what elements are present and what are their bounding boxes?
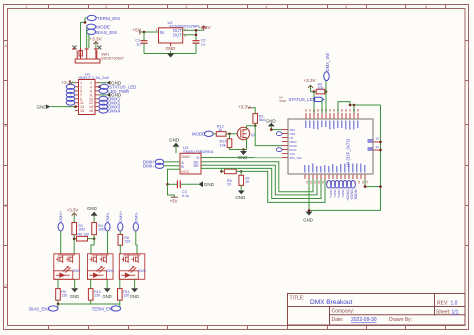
mcu U4 designator text	[346, 138, 351, 167]
power flag +3.3V circuit1	[67, 208, 79, 223]
wire GND to header pin13	[51, 106, 76, 108]
junction dot right loop branch	[379, 185, 382, 188]
wire DMX+ to U3 A	[164, 161, 180, 163]
svg-text:+3.3V: +3.3V	[90, 37, 103, 42]
svg-text:GND: GND	[266, 118, 277, 123]
wire GND to MCU row1	[271, 129, 282, 131]
junction dot enable rail left	[57, 303, 60, 306]
svg-text:1k: 1k	[218, 128, 222, 132]
svg-text:U5: U5	[290, 136, 294, 140]
mcu U4 bottom pin numbers	[305, 181, 369, 185]
net flag DMX3- below mcu	[347, 181, 354, 201]
svg-text:IN: IN	[160, 30, 164, 35]
svg-text:130: 130	[123, 293, 129, 297]
ground flag GND below Q1	[238, 150, 248, 160]
resistor R8 vertical circuit3	[118, 231, 130, 245]
wire R11 top from switch	[119, 279, 121, 288]
junction dot source GND node	[242, 148, 245, 151]
mcu U4 bottom pin stubs	[305, 174, 365, 179]
junction dot right loop bottom	[364, 185, 367, 188]
svg-text:24: 24	[376, 145, 380, 149]
svg-text:GND: GND	[235, 195, 245, 200]
svg-text:DMX-: DMX-	[105, 211, 110, 222]
svg-text:DMX-: DMX-	[143, 164, 155, 169]
wire +3.3V down to R9 left node	[311, 85, 315, 91]
svg-text:SSSS710607: SSSS710607	[101, 56, 124, 60]
wire DMX- to U3 B	[164, 165, 180, 167]
wire U3 D to mcu left row8	[201, 157, 282, 159]
wire R8 bottom to box3 left pin	[119, 245, 121, 254]
wire right loop vertical	[309, 105, 381, 210]
net flag STATUS_LED at mcu	[289, 97, 324, 102]
junction dot header pin13	[74, 105, 77, 108]
svg-text:1/1: 1/1	[452, 310, 459, 316]
mcu U4 top pin name labels	[305, 121, 358, 130]
wire Q1 drain up to node	[247, 126, 256, 130]
net flag STATUS_LED header right row2	[98, 84, 136, 89]
junction dot at C1 top	[143, 31, 146, 34]
net flag DMX+ left of U3	[143, 159, 164, 164]
wire R10 top from switch	[90, 279, 92, 288]
mcu U4 bottom pin name labels	[304, 164, 365, 173]
net flag DMX- left of U3	[143, 163, 164, 168]
svg-text:49: 49	[356, 108, 360, 112]
wire MODE to R2	[213, 133, 216, 135]
mcu U4 left pin name labels	[290, 128, 302, 160]
svg-text:TERM_EN!: TERM_EN!	[92, 306, 114, 311]
wire R5 node staircase to mcu bottom pin	[236, 171, 325, 202]
svg-text:RE: RE	[194, 164, 200, 168]
resistor R10 vertical	[88, 289, 100, 301]
svg-text:GND: GND	[166, 46, 176, 51]
svg-text:Date:: Date:	[332, 317, 344, 323]
wire R3 bottom to box1 right pin	[73, 235, 75, 254]
svg-text:+3.3V: +3.3V	[304, 78, 317, 83]
ground flag GND above MCU row1	[266, 118, 277, 129]
svg-text:U4 (32F_0x72): U4 (32F_0x72)	[346, 138, 351, 167]
net flag DMX3 header right row7	[99, 104, 121, 109]
svg-text:SW3: SW3	[106, 269, 114, 273]
title block Date	[332, 317, 413, 323]
analog switch SW4 body	[119, 254, 145, 279]
svg-text:A: A	[4, 43, 7, 48]
svg-text:GND: GND	[102, 294, 111, 299]
svg-text:DMX1-: DMX1-	[333, 190, 337, 198]
transceiver U3 body	[180, 153, 201, 174]
svg-text:DMX Breakout: DMX Breakout	[310, 299, 352, 306]
wire U3 VCC left and down to +5V	[168, 169, 181, 197]
svg-text:GND: GND	[204, 182, 215, 187]
svg-text:18: 18	[376, 137, 380, 141]
mcu U4 top pin stubs	[306, 113, 358, 119]
resistor R4 vertical circuit2	[92, 223, 105, 235]
svg-text:BIAS_EN!: BIAS_EN!	[29, 306, 48, 311]
title block Company	[332, 309, 355, 315]
svg-text:130: 130	[94, 293, 100, 297]
ground symbol under regulator	[167, 54, 174, 58]
ground flag GND left of header	[37, 104, 51, 109]
svg-text:Company:: Company:	[332, 309, 355, 315]
power flag +3.3V above mcu	[304, 78, 317, 88]
wire DMX_SW down to mcu pin	[325, 81, 327, 113]
junction dot right of R5 at R7 top	[240, 170, 243, 173]
svg-text:+3.3V: +3.3V	[238, 105, 251, 110]
net flag LED_DATA header right row3	[99, 88, 129, 93]
svg-text:1: 1	[156, 28, 158, 32]
net flag oval header left row3	[66, 88, 75, 93]
net flag DMX1+ vertical circuit1	[58, 210, 63, 231]
ground wire under regulator	[144, 53, 196, 55]
svg-text:GND: GND	[303, 218, 313, 223]
title block title value DMX Breakout	[310, 299, 352, 306]
wire R9 left node to mcu pin	[313, 92, 315, 113]
wire R10 bottom to enable rail	[90, 300, 92, 304]
svg-text:DMX3-: DMX3-	[349, 190, 353, 201]
net flag DMX1 header right row5	[99, 96, 121, 101]
svg-text:5k4: 5k4	[259, 118, 265, 122]
net flag DMX2 header right row6	[99, 100, 121, 105]
svg-text:C: C	[4, 203, 7, 208]
net flag MODE top-left	[87, 24, 110, 30]
svg-text:VCC: VCC	[181, 170, 189, 174]
capacitor C3 decoupling	[168, 181, 199, 198]
svg-text:3: 3	[184, 34, 186, 38]
wire enable rail bottom	[58, 303, 120, 305]
net flag DMX2+ below mcu	[335, 181, 342, 199]
wire R13 bottom to GND node	[230, 148, 244, 150]
svg-text:Drawn By:: Drawn By:	[389, 317, 412, 323]
header H1 designator	[79, 72, 110, 80]
title block TITLE label	[290, 296, 305, 302]
junction dot R9 left	[313, 90, 316, 93]
power flag +3.3V regulator output	[199, 25, 212, 30]
wire BIAS_EN to SW1	[88, 34, 90, 48]
svg-text:TITLE:: TITLE:	[290, 296, 305, 302]
svg-text:1u: 1u	[201, 42, 205, 46]
ground flag GND right of C3	[198, 181, 214, 187]
wire U2 OUT pins to +3.3V rail	[183, 30, 204, 40]
mcu U4 top pin numbers	[304, 108, 360, 112]
resistor R5 inline horizontal	[221, 169, 236, 187]
junction dots at regulator output	[195, 29, 198, 36]
transceiver U3 designator	[183, 145, 214, 154]
header H1 pin numbers	[80, 81, 93, 113]
net flag BIAS_EN! bottom	[29, 304, 58, 311]
svg-text:1M2: 1M2	[78, 228, 85, 232]
ground flag GND under switch near R9	[70, 279, 79, 299]
title block Sheet	[436, 310, 459, 316]
svg-text:10k: 10k	[220, 143, 226, 147]
mcu U4 right pin numbers	[376, 137, 380, 150]
svg-text:15: 15	[80, 109, 84, 113]
resistor R12 horizontal	[216, 124, 226, 136]
svg-text:27: 27	[365, 181, 369, 185]
regulator U2 designator	[168, 20, 200, 28]
junction dot at gate node	[228, 133, 231, 136]
wire jog over mcu top pins	[338, 102, 350, 113]
wire TERM_EN to SW1 pin1	[81, 18, 88, 48]
ground flag GND below R7	[235, 185, 245, 199]
svg-text:R6 130: R6 130	[78, 233, 90, 237]
header H1 right pin stubs	[95, 83, 99, 111]
net flag DMX1- below mcu	[331, 181, 338, 198]
power flag +3.3V at header pin1	[62, 80, 76, 85]
net flag DMX3+ below mcu	[343, 181, 350, 201]
power flag +3.3V above R1	[238, 105, 252, 110]
junction dot MCU row1	[270, 128, 273, 131]
resistor R3 vertical circuit1	[72, 223, 85, 235]
transistor Q1 MOSFET	[237, 127, 249, 139]
junction dot at C3 branch	[166, 183, 169, 186]
resistor R6 horizontal between circuits	[74, 233, 94, 241]
header H1 body	[79, 80, 96, 115]
svg-text:130: 130	[61, 293, 67, 297]
net flag DMX1+ below mcu	[327, 181, 334, 199]
wire drain node to MCU row5	[255, 126, 282, 146]
net flag oval header left row2	[66, 84, 75, 89]
ground flag GND below mcu	[303, 212, 313, 223]
svg-text:OUT: OUT	[173, 32, 182, 37]
svg-text:PKG0: PKG0	[290, 144, 298, 148]
svg-text:DMX2+: DMX2+	[337, 190, 341, 199]
svg-text:OSC: OSC	[290, 132, 296, 136]
svg-text:DMX-: DMX-	[133, 211, 138, 222]
svg-text:GND: GND	[37, 104, 48, 109]
no-connect cross right of SW1	[97, 46, 101, 50]
junction dots right loop at mcu right pins	[379, 141, 382, 152]
switch SW1 designator and value	[101, 53, 124, 61]
mcu U4 left pin stubs	[282, 130, 288, 158]
svg-text:25: 25	[357, 181, 361, 185]
svg-text:13: 13	[309, 181, 313, 185]
svg-text:MOD: MOD	[280, 99, 287, 103]
power flag +3.3V above SW1	[90, 37, 103, 49]
svg-text:DMX1+: DMX1+	[329, 190, 333, 199]
svg-text:16: 16	[321, 181, 325, 185]
svg-text:1u: 1u	[136, 42, 140, 46]
ground pin flag GND below U2	[166, 43, 176, 54]
wire +3.3V to R1	[252, 108, 255, 114]
svg-text:REV:: REV:	[437, 301, 448, 307]
net flag oval header left row5	[66, 96, 75, 101]
no-connect cross left of SW1	[73, 46, 77, 50]
wire STATUS_LED to mcu pin	[321, 99, 323, 113]
net flag DMX_SW vertical above mcu	[324, 52, 330, 81]
wire DMX2- to box2 right pin	[107, 231, 109, 254]
svg-text:B: B	[181, 165, 184, 169]
ground flag GND under switch near R10	[102, 279, 111, 299]
net flag oval header left row6	[66, 100, 75, 105]
net flag BIAS_EN! top-left	[87, 29, 117, 35]
mcu U4 left pin net ovals	[276, 132, 282, 152]
resistor R3g gate pulldown vertical	[220, 134, 232, 148]
svg-text:1M2: 1M2	[98, 228, 105, 232]
svg-text:26: 26	[361, 181, 365, 185]
svg-text:GND: GND	[87, 206, 97, 211]
mcu U4 body	[288, 119, 373, 174]
mcu U4 right pin name labels	[368, 139, 373, 150]
ground flag GND under switch near R11	[130, 279, 139, 299]
wire mcu gnd pin down	[308, 179, 310, 210]
svg-text:SW2: SW2	[73, 269, 81, 273]
regulator U2 body	[156, 28, 187, 43]
net flag TERM_EN! bottom	[92, 304, 121, 311]
svg-text:GND: GND	[130, 294, 139, 299]
svg-text:TERM_EN!: TERM_EN!	[97, 16, 120, 21]
svg-text:PKG1: PKG1	[290, 148, 298, 152]
svg-text:DMX2-: DMX2-	[341, 190, 345, 198]
wire R2 to Q1 gate	[226, 133, 237, 135]
svg-text:1.0: 1.0	[451, 301, 458, 307]
svg-text:20: 20	[227, 183, 231, 187]
wire R11 bottom to enable rail	[119, 300, 121, 304]
svg-text:Sheet:: Sheet:	[436, 310, 450, 316]
header H1 left pin stubs	[75, 83, 79, 111]
svg-text:10k: 10k	[318, 86, 324, 90]
svg-text:0.1u: 0.1u	[182, 194, 189, 198]
svg-text:DMX3+: DMX3+	[345, 190, 349, 201]
ground flag GND circuit2 top	[87, 206, 98, 223]
net flag oval header left row4	[66, 92, 75, 97]
svg-text:20: 20	[245, 180, 249, 184]
wire top bus tap to mcu pin	[353, 105, 355, 113]
svg-text:NRST: NRST	[290, 140, 298, 144]
svg-text:VSS: VSS	[290, 152, 296, 156]
junction dots on top bus	[349, 104, 356, 107]
wire Q1 source down to GND node	[244, 138, 247, 150]
wire top bus to right loop	[350, 104, 381, 106]
svg-text:SPK_TH2: SPK_TH2	[290, 156, 302, 160]
switch SW1 body	[72, 48, 100, 63]
wire R4 bottom to box2 left pin	[91, 235, 94, 254]
net flag TERM_EN! top-left	[87, 15, 120, 21]
svg-text:GND: GND	[169, 138, 180, 143]
wire mcu bottom pin to right loop	[364, 179, 366, 187]
wire R1 bottom to drain node	[254, 123, 256, 125]
junction dot R9 right	[325, 90, 328, 93]
svg-text:16: 16	[89, 109, 93, 113]
net flag MODE near Q1	[192, 131, 213, 137]
svg-text:DMX_SW: DMX_SW	[325, 52, 330, 72]
resistor designator text near STATUS_LED	[279, 96, 286, 103]
svg-text:MODE: MODE	[353, 190, 357, 201]
title block	[288, 294, 466, 326]
wire U3 RE staircase to mcu bottom pin	[201, 165, 317, 195]
junction dot near TERM_EN wire	[84, 21, 87, 24]
wire +5V to U2 IN	[140, 31, 159, 33]
svg-text:DMX+: DMX+	[118, 210, 123, 222]
junction dot left of R5	[220, 168, 223, 172]
wire U3 DE staircase to mcu bottom pin	[201, 162, 313, 192]
power flag +5V below U3	[170, 197, 178, 203]
svg-text:D: D	[4, 283, 7, 288]
svg-text:GND: GND	[181, 155, 190, 159]
junction dot gnd rail	[308, 209, 311, 212]
ground flag GND header right row4	[99, 93, 122, 98]
capacitor C2	[193, 39, 206, 54]
resistor R9 pullup horizontal	[314, 83, 326, 94]
wire U3 DI staircase to mcu bottom pin	[201, 168, 321, 198]
wire R9 bottom to enable rail	[57, 300, 59, 304]
net flag DMX4 header right row8	[99, 108, 121, 113]
resistor R9 vertical	[56, 289, 68, 301]
wire DMX3- to box3 right pin	[136, 231, 137, 254]
svg-text:SW4: SW4	[138, 269, 146, 273]
resistor R7 vertical	[239, 171, 250, 185]
svg-text:MODE: MODE	[192, 132, 205, 137]
ground flag GND header right row1	[99, 80, 122, 85]
svg-text:GND: GND	[70, 294, 79, 299]
junction dot R5h right	[93, 237, 96, 240]
wire right loop branch to mcu pin	[365, 186, 381, 188]
transistor Q1 designator	[251, 133, 256, 137]
junction dot drain node	[254, 124, 257, 127]
svg-text:B: B	[4, 123, 7, 128]
net flag DMX2- below mcu	[339, 181, 346, 198]
capacitor C1	[135, 32, 147, 54]
net flag MODE below mcu	[351, 181, 358, 201]
svg-text:DMX4: DMX4	[108, 109, 121, 114]
svg-text:STATUS_LED: STATUS_LED	[289, 97, 316, 102]
svg-text:+3.3V: +3.3V	[67, 208, 79, 213]
svg-text:14: 14	[313, 181, 317, 185]
resistor R11 vertical	[118, 289, 130, 301]
svg-text:DMX+: DMX+	[58, 210, 63, 222]
svg-text:VBA: VBA	[290, 128, 296, 132]
wire R9 top from switch	[57, 279, 59, 288]
resistor R1 vertical	[253, 114, 265, 124]
junction dot R5h left	[73, 237, 76, 240]
wire DMX1+ to box1 left pin	[60, 231, 62, 254]
wire MODE to SW1 pin2	[86, 27, 88, 48]
analog switch SW2 body	[54, 254, 80, 279]
svg-text:120: 120	[124, 239, 130, 243]
svg-text:12: 12	[305, 181, 309, 185]
power flag +5V regulator input	[133, 28, 142, 35]
svg-text:+5V: +5V	[170, 199, 178, 204]
net flag DMX3+ vertical circuit3	[118, 210, 123, 231]
analog switch SW3 body	[88, 254, 114, 279]
svg-text:BIAS_EN!: BIAS_EN!	[96, 30, 117, 35]
title block REV	[437, 301, 458, 307]
ground flag GND above U3	[169, 138, 180, 154]
mcu U4 right pin stubs	[373, 142, 381, 150]
svg-text:15: 15	[317, 181, 321, 185]
net flag DMX2- vertical circuit2	[105, 211, 110, 231]
net flag DMX3- vertical circuit3	[133, 211, 138, 231]
svg-text:2022-09-30: 2022-09-30	[351, 317, 377, 323]
